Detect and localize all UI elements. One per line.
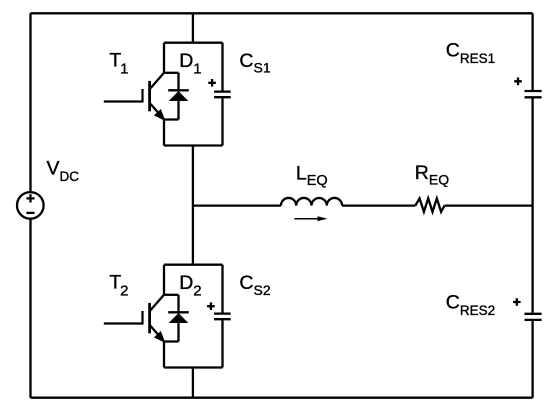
wire right rail middle [531, 98, 533, 313]
diode D1 [164, 73, 189, 120]
capacitor CS2 plus sign [207, 302, 215, 310]
T2 cell box bottom edge [164, 366, 223, 368]
svg-text:CRES1: CRES1 [446, 40, 495, 67]
T1 cell box right edge upper [221, 43, 223, 91]
voltage source VDC circle [17, 192, 44, 219]
wire right rail lower [531, 321, 533, 398]
svg-text:D2: D2 [179, 272, 201, 300]
T2 cell box top edge [164, 264, 223, 266]
voltage source minus sign [26, 212, 34, 214]
svg-text:T2: T2 [109, 272, 128, 300]
svg-text:REQ: REQ [415, 162, 449, 188]
capacitor CRES1 plates [525, 91, 542, 97]
capacitor CRES1 plus sign [514, 78, 522, 86]
T1 cell box top edge [164, 42, 223, 44]
resistor REQ [415, 198, 444, 211]
wire midpoint to inductor [193, 204, 281, 206]
svg-text:CS1: CS1 [239, 50, 270, 76]
capacitor CS1 plus sign [208, 79, 216, 87]
current arrow under inductor [294, 218, 319, 220]
T2 cell box right edge lower [221, 320, 223, 367]
wire top rail [31, 12, 533, 14]
svg-text:D1: D1 [179, 50, 201, 78]
inductor LEQ [281, 198, 342, 206]
wire resistor to right rail [445, 204, 533, 206]
wire bottom rail [31, 397, 533, 399]
transistor T2 (IGBT) [104, 295, 165, 342]
svg-text:CS2: CS2 [239, 272, 270, 298]
wire inductor to resistor [342, 204, 415, 206]
svg-text:T1: T1 [109, 50, 128, 78]
wire left rail lower [29, 219, 31, 398]
svg-text:CRES2: CRES2 [446, 291, 495, 318]
wire right rail upper [531, 13, 533, 90]
diode D2 [164, 295, 189, 342]
T1 cell box left edge upper [163, 43, 165, 73]
T2 cell box left edge lower [163, 342, 165, 368]
svg-text:LEQ: LEQ [296, 162, 328, 189]
voltage source plus sign [26, 194, 34, 202]
wire center leg bottom [192, 368, 194, 398]
capacitor CRES2 plates [525, 314, 542, 320]
capacitor CS1 plates [214, 92, 231, 98]
T1 cell box left edge lower [163, 120, 165, 146]
svg-text:VDC: VDC [47, 158, 80, 184]
T1 cell box bottom edge [164, 144, 223, 146]
capacitor CRES2 plus sign [513, 298, 521, 306]
transistor T1 (IGBT) [104, 73, 165, 120]
T1 cell box right edge lower [221, 98, 223, 145]
wire center leg middle [192, 146, 194, 265]
capacitor CS2 plates [214, 314, 231, 320]
T2 cell box right edge upper [221, 265, 223, 313]
wire left rail upper [29, 13, 31, 192]
T2 cell box left edge upper [163, 265, 165, 295]
wire center leg top [192, 13, 194, 42]
